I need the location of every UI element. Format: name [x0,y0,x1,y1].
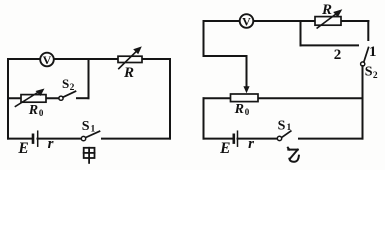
svg-text:R: R [28,103,38,118]
svg-text:R: R [123,65,134,81]
switch S1 (right circuit) lever [282,131,291,137]
svg-text:2: 2 [373,71,378,81]
label E (right circuit) [219,140,230,157]
rheostat R (right circuit) body [315,17,341,26]
switch S2 (left circuit) pivot [59,96,63,100]
svg-text:1: 1 [287,123,292,133]
svg-text:2: 2 [70,83,75,93]
svg-text:r: r [48,136,54,152]
rheostat R (right circuit) arrow [317,9,342,28]
wire: right circuit bottom, left corner to battery [204,138,234,140]
label S1 (left circuit) [82,119,96,135]
voltmeter V (right circuit) [240,14,254,28]
svg-text:0: 0 [245,107,250,117]
switch S2 (right circuit) pivot [361,62,365,66]
voltmeter V (left circuit) [40,53,54,67]
svg-text:V: V [43,53,52,67]
svg-text:2: 2 [334,47,342,63]
rheostat R (left circuit) arrow [119,46,142,68]
wire: left circuit bottom, left corner to battery [8,138,33,140]
svg-text:R: R [321,2,332,18]
svg-text:E: E [17,140,28,157]
wire: R0 branch middle horizontal (left edge to right edge) [204,97,363,99]
wire: left circuit right vertical [169,59,171,139]
wire: right circuit right vertical (S2 pivot to bottom corner) [362,66,364,139]
wire: left circuit left vertical [7,59,9,139]
wire: right circuit top (V to R to corner) [204,20,369,22]
label 1 (S2 contact 1) [369,44,377,60]
wire: V-branch left vertical (top-left corner down) [203,21,205,56]
switch S2 (left circuit) lever [63,91,76,97]
wire: V-branch horizontal over to wiper [204,55,247,57]
wire: junction vertical between top wire and R0 branch [88,59,90,98]
battery E,r (right circuit): long positive plate [237,131,239,146]
battery E,r (right circuit): short negative plate [233,135,236,143]
wire: right circuit bottom, battery to S1 pivot [238,138,278,140]
potentiometer R0 (right circuit) body [231,94,259,102]
label S2 (left circuit) [62,76,75,93]
rheostat R0 (left circuit) arrow [15,89,44,107]
label r (left circuit) [48,136,54,152]
label 2 (S2 contact 2) [334,47,342,63]
svg-text:S: S [82,119,90,134]
svg-text:0: 0 [39,108,44,118]
label 甲 (left circuit caption) [84,148,95,163]
svg-text:S: S [278,118,286,133]
wire: S2 contact to junction corner [77,97,89,99]
label R (left circuit) [123,65,134,81]
wire: left circuit bottom, S1 to right corner [102,138,170,140]
label S2 (right circuit) [365,65,378,81]
wire: left circuit bottom, battery to S1 pivot [38,138,82,140]
svg-text:1: 1 [91,124,96,134]
wire: right circuit upper-right vertical down to contact 1 [367,21,369,40]
wire: right circuit bottom, S1 to right corner [299,138,363,140]
battery E,r (left circuit): short negative plate [32,135,35,143]
label R (right circuit) [321,2,332,18]
switch S1 (left circuit) pivot [81,136,85,140]
rheostat R0 (left circuit) body [21,95,46,103]
svg-text:V: V [242,14,251,28]
wire: left circuit top (node between V branch and R) [8,58,170,60]
label R0 (left circuit) [28,103,44,118]
svg-text:E: E [219,140,230,157]
label 乙 (right circuit caption) [288,148,299,162]
svg-text:S: S [62,76,69,91]
wire: R0 branch horizontal (left edge to S2) [8,97,59,99]
svg-text:R: R [234,102,244,117]
wire: position-2 horizontal to S2 contact 2 [301,44,359,46]
svg-text:S: S [365,65,373,80]
wire: wiper vertical with down arrow into R0 [243,56,249,93]
switch S1 (left circuit) lever [86,131,100,137]
wire: right circuit left vertical (middle wire to bottom) [203,98,205,138]
rheostat R (left circuit) body [118,56,142,62]
label R0 (right circuit) [234,102,250,117]
label S1 (right circuit) [278,118,292,133]
battery E,r (left circuit): long positive plate [37,131,39,146]
label r (right circuit) [248,136,254,152]
svg-text:1: 1 [369,44,377,60]
switch S1 (right circuit) pivot [277,136,281,140]
switch S2 (right circuit) lever toward contact 1 [364,48,369,63]
wire: branch vertical from top wire down to position-2 wire [300,21,302,45]
label E (left circuit) [17,140,28,157]
